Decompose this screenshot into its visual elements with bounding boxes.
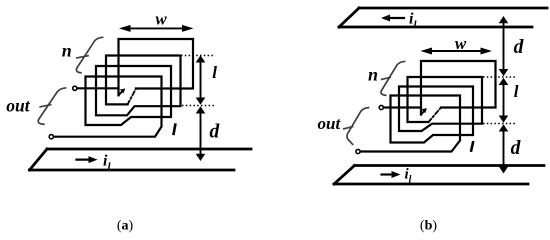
brace crossbar out (b): [344, 127, 353, 129]
dimension arrow d bottom (b): [503, 131, 505, 167]
dotted extension line bottom (b): [483, 123, 516, 125]
coil spiral turns R4-R3-R2 (b): [361, 77, 483, 152]
svg-text:w: w: [155, 9, 167, 28]
top terminal lead (a): [78, 87, 119, 89]
top conductor bar (b): [339, 8, 547, 27]
current arrow i1 in bar (a): [77, 159, 91, 161]
coil turn R1 (b): [421, 61, 496, 115]
bottom terminal circle (a): [49, 135, 53, 139]
svg-text:n: n: [62, 40, 72, 60]
dash-dot hidden-turn segment (a): [128, 89, 136, 105]
small tick near coil exit (a): [174, 125, 176, 134]
current arrow i1 top bar (b): [389, 17, 404, 19]
dash-dot hidden-turn segment (b): [429, 108, 442, 123]
bottom conductor bar (b): [334, 166, 544, 185]
brace crossbar out (a): [40, 105, 50, 107]
conductor bar (a): [30, 149, 252, 170]
svg-text:d: d: [514, 37, 524, 58]
brace for n (b): [381, 61, 405, 95]
dotted extension line bottom (a): [182, 105, 214, 107]
svg-text:l: l: [514, 82, 519, 101]
current arrow i1 bottom bar (b): [382, 173, 394, 175]
dimension arrow w (b): [431, 50, 483, 52]
brace for n (a): [76, 37, 102, 72]
svg-text:out: out: [6, 96, 30, 116]
inner-end hook arrow (a): [119, 91, 123, 96]
top terminal circle (b): [379, 105, 383, 109]
small tick near coil exit (b): [471, 142, 473, 150]
dimension arrow d top (b): [503, 22, 505, 70]
svg-text:(b): (b): [420, 219, 437, 234]
svg-text:d: d: [511, 138, 521, 159]
coil turn R1 (a): [119, 39, 194, 95]
bottom terminal circle (b): [356, 149, 360, 153]
svg-text:n: n: [368, 65, 378, 85]
svg-text:out: out: [318, 114, 342, 133]
svg-text:d: d: [210, 121, 220, 142]
dotted extension line top (a): [181, 55, 214, 57]
dimension arrow l (b): [503, 84, 505, 116]
dimension arrow w (a): [129, 27, 184, 29]
dotted extension line top (b): [483, 76, 516, 78]
brace for out (b): [347, 108, 369, 145]
top terminal circle (a): [73, 86, 77, 90]
dimension arrow d (a): [200, 112, 202, 154]
top terminal lead (b): [384, 106, 421, 108]
svg-text:w: w: [455, 34, 467, 53]
brace for out (a): [38, 88, 65, 124]
brace crossbar n (a): [77, 56, 88, 58]
inner-end hook arrow (b): [421, 111, 425, 115]
svg-text:l: l: [212, 63, 217, 82]
coil spiral turns R4-R3-R2 (a): [54, 56, 181, 137]
brace crossbar n (b): [382, 77, 391, 79]
svg-text:(a): (a): [117, 219, 134, 234]
dimension arrow l (a): [200, 62, 202, 99]
